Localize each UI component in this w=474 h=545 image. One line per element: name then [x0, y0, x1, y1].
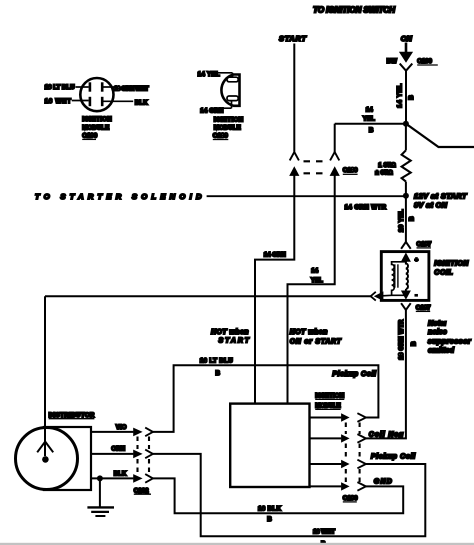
connector C189 pin B female chevron — [330, 152, 339, 160]
module pin pickup coil stub — [310, 417, 342, 419]
scan artifact bottom band — [0, 543, 474, 545]
wire 14 YEL branch to C189 — [335, 124, 406, 152]
C189 face pin top — [217, 73, 239, 82]
label IGNITION MODULE C189 — [213, 116, 244, 139]
svg-text:1 35Ω: 1 35Ω — [378, 162, 395, 169]
svg-text:16 LT BLU: 16 LT BLU — [200, 358, 234, 365]
svg-text:14: 14 — [366, 107, 373, 114]
connector C190 face view circle — [80, 78, 113, 111]
module pin gnd stub — [310, 485, 342, 487]
svg-text:suppressor: suppressor — [428, 337, 472, 346]
connector C190 pin 4 female chevron — [357, 482, 366, 491]
wire 18 GRN WTR coil negative — [366, 313, 406, 438]
connector C190 dashed body line 1 — [345, 423, 347, 483]
label IGNITION COIL — [434, 261, 469, 277]
connector C100 label — [417, 58, 438, 65]
svg-text:14 GRN WTR: 14 GRN WTR — [345, 204, 387, 211]
connector C202 dashed body line 1 — [136, 437, 138, 474]
label 14 YEL — [311, 268, 323, 284]
coil secondary tower female chevron — [371, 292, 376, 301]
connector C100 female chevron — [400, 64, 413, 76]
label 16 LT BLU B — [200, 358, 234, 378]
svg-text:noise: noise — [428, 327, 447, 336]
svg-text:IGNITION: IGNITION — [434, 261, 469, 268]
ignition module box — [230, 404, 309, 487]
label B rotated — [410, 341, 417, 346]
svg-text:VIO: VIO — [116, 424, 127, 431]
distributor pickup VIO lead — [91, 431, 133, 433]
label TO STARTER SOLENOID — [35, 192, 202, 201]
svg-text:C189: C189 — [343, 167, 358, 174]
wire 14 GRN from C189 to ignition module — [255, 174, 294, 404]
wire into distributor rotor — [44, 296, 46, 456]
label VIO — [116, 424, 127, 431]
label HOT when START — [211, 329, 250, 345]
distributor rotor node — [42, 456, 49, 463]
svg-text:14 GRN: 14 GRN — [200, 108, 224, 115]
svg-text:14 YEL: 14 YEL — [396, 84, 403, 108]
svg-text:IGNITION: IGNITION — [214, 116, 244, 123]
resistor 1.35 ohm ballast — [402, 124, 411, 196]
connector C189 face view shape — [221, 75, 239, 106]
wire 14 YEL from C189 to ignition module — [288, 174, 335, 404]
connector C197 bottom male arrow inside coil — [401, 291, 411, 300]
svg-text:18 GRN WTR: 18 GRN WTR — [398, 319, 405, 360]
svg-text:20 YEL: 20 YEL — [398, 209, 405, 232]
svg-text:MODULE: MODULE — [214, 125, 241, 132]
svg-text:omitted: omitted — [428, 346, 455, 355]
C190 face pin bottom-right — [102, 97, 133, 106]
connector C202 pin 3 male arrow — [133, 474, 142, 483]
connector C189 pin A female chevron — [290, 152, 299, 160]
junction node 14 YEL — [403, 121, 409, 127]
connector C202 pin 1 male arrow — [133, 428, 142, 437]
label 14 GRN — [264, 252, 287, 259]
svg-text:+: + — [415, 257, 419, 263]
svg-text:GND: GND — [374, 479, 392, 486]
svg-text:BLK: BLK — [114, 470, 127, 477]
node ON — [401, 34, 413, 43]
ignition coil box — [381, 252, 429, 301]
connector C190 label — [343, 495, 358, 502]
C189 face pin bottom — [221, 96, 238, 108]
label 16 WHT pin — [45, 98, 72, 105]
label 12V at START 9V at ON — [414, 191, 468, 209]
connector C189 label — [343, 167, 358, 174]
label 14 YEL pin — [198, 71, 220, 78]
label HOT when ON or START — [290, 329, 342, 346]
label 16 BLK B — [258, 505, 282, 523]
distributor housing — [16, 427, 92, 490]
label 16 WHT B — [313, 529, 335, 545]
svg-text:C189: C189 — [213, 133, 229, 140]
node START — [279, 34, 307, 43]
svg-text:16 WHT: 16 WHT — [45, 98, 72, 105]
svg-text:C197: C197 — [416, 304, 431, 311]
svg-text:YEL: YEL — [311, 277, 323, 284]
C190 face pin bottom-left — [72, 97, 90, 106]
svg-text:B: B — [408, 216, 415, 221]
svg-text:B: B — [408, 95, 415, 100]
label 20 YEL rotated — [398, 209, 405, 232]
label 14 YEL rotated — [396, 84, 403, 108]
svg-text:START: START — [279, 34, 307, 43]
label GND — [374, 479, 392, 486]
module pin coil neg stub — [310, 437, 342, 439]
label TO IGNITION SWITCH — [313, 6, 396, 15]
svg-text:YEL: YEL — [363, 116, 375, 123]
label 18 GRN WHT pin — [114, 86, 149, 93]
label 16 LT BLU pin — [45, 84, 76, 91]
label B rotated — [408, 216, 415, 221]
wire to starter solenoid — [207, 195, 406, 197]
connector C190 pin 2 female chevron — [357, 434, 366, 443]
distributor BLK ground lead — [91, 477, 133, 479]
label 14 GRN WTR — [345, 204, 387, 211]
svg-text:16 BLK: 16 BLK — [258, 505, 282, 512]
connector C202 label — [134, 487, 151, 494]
connector C190 pin 3 female chevron — [357, 460, 366, 469]
svg-text:Pickup Coil: Pickup Coil — [371, 454, 416, 461]
svg-text:BW: BW — [387, 58, 397, 65]
svg-text:ORN: ORN — [111, 446, 125, 453]
connector C202 pin 2 male arrow — [133, 450, 142, 459]
svg-text:C197: C197 — [417, 241, 432, 248]
connector C190 pin 1 male arrow — [341, 413, 350, 421]
connector C190 pin 1 female chevron — [357, 413, 366, 422]
svg-text:Pickup Coil: Pickup Coil — [332, 371, 377, 378]
svg-text:COIL: COIL — [434, 269, 453, 276]
wire 16 WHT pickup return — [153, 454, 425, 536]
svg-text:MODULE: MODULE — [82, 125, 109, 132]
svg-text:DISTRIBUTOR: DISTRIBUTOR — [49, 412, 95, 419]
svg-text:Coil Neg: Coil Neg — [369, 432, 404, 439]
label IGNITION MODULE C190 — [82, 116, 112, 140]
svg-text:B: B — [369, 127, 374, 134]
label 14 YEL B — [363, 107, 375, 134]
connector C189 pin A male arrow — [289, 166, 299, 176]
C190 face pin top-left — [76, 82, 90, 91]
wire 14 YEL ON feed — [405, 74, 407, 124]
connector C189 dashed body link row 1 — [304, 160, 329, 162]
connector C202 pin 3 female chevron — [145, 474, 153, 483]
label B rotated — [408, 95, 415, 100]
coil polarity labels — [415, 257, 419, 298]
svg-text:ON: ON — [401, 34, 413, 43]
label BW — [387, 58, 397, 65]
junction node 12V — [403, 193, 409, 199]
distributor pickup ORN lead — [91, 453, 133, 455]
label 18 GRN WTR rotated — [398, 319, 405, 360]
wire 20 YEL to ignition coil — [405, 196, 407, 242]
wire branch to right edge — [406, 124, 474, 147]
svg-text:14 YEL: 14 YEL — [198, 71, 220, 78]
connector C190 pin 3 male arrow — [341, 460, 350, 468]
svg-text:18 GRN WHT: 18 GRN WHT — [114, 86, 149, 93]
connector C197 top female chevron — [401, 242, 411, 249]
svg-text:B: B — [267, 516, 272, 523]
ignition coil core — [395, 264, 398, 287]
label DISTRIBUTOR — [49, 412, 95, 419]
svg-text:16 WHT: 16 WHT — [313, 529, 335, 536]
svg-text:B: B — [216, 370, 221, 377]
svg-text:IGNITION: IGNITION — [315, 393, 344, 400]
ground — [87, 478, 114, 516]
svg-text:C202: C202 — [134, 487, 149, 494]
svg-text:C190: C190 — [343, 495, 358, 502]
svg-text:C190: C190 — [82, 133, 98, 140]
distributor rotor arrow — [37, 442, 53, 453]
svg-text:TO IGNITION SWITCH: TO IGNITION SWITCH — [313, 6, 396, 15]
svg-text:HOT when: HOT when — [290, 329, 328, 336]
connector C202 pin 2 female chevron — [145, 450, 153, 459]
svg-text:HOT when: HOT when — [211, 329, 249, 336]
svg-text:C100: C100 — [417, 58, 432, 65]
connector C100 male arrow — [399, 43, 413, 63]
wire coil secondary to distributor — [45, 295, 371, 297]
C190 face pin top-right — [102, 82, 113, 91]
svg-text:14: 14 — [311, 268, 318, 275]
note noise suppressor omitted — [428, 319, 472, 355]
connector C189 pin B male arrow — [330, 166, 340, 176]
label Pickup Coil top — [332, 371, 377, 378]
module pin pickup coil 2 stub — [310, 463, 342, 465]
svg-text:14 GRN: 14 GRN — [264, 252, 287, 259]
connector C197 top male arrow inside coil — [401, 252, 411, 264]
connector C189 dashed body link row 2 — [304, 172, 329, 174]
connector C190 pin 4 male arrow — [341, 482, 350, 490]
coil secondary tower male arrow — [374, 291, 384, 301]
connector C197 bottom label — [416, 304, 431, 311]
connector C190 pin 2 male arrow — [341, 434, 350, 442]
svg-text:IGNITION: IGNITION — [82, 116, 112, 123]
junction node BLK ground — [97, 475, 103, 481]
svg-text:12V at START: 12V at START — [414, 191, 468, 200]
svg-text:16 LT BLU: 16 LT BLU — [45, 84, 76, 91]
ignition coil primary winding — [383, 262, 406, 296]
ignition coil secondary winding — [406, 264, 408, 293]
wire 16 LT BLU pickup loop — [153, 365, 379, 432]
label 14 GRN pin — [200, 108, 224, 115]
label BLK pin — [135, 99, 148, 106]
svg-text:MODULE: MODULE — [315, 403, 341, 410]
label ORN — [111, 446, 125, 453]
svg-text:-: - — [415, 292, 417, 298]
svg-text:B: B — [410, 341, 417, 346]
connector C202 dashed body line 2 — [148, 437, 150, 474]
label IGNITION MODULE — [315, 393, 344, 410]
connector C197 bottom female chevron — [401, 303, 411, 313]
connector C190 dashed body line 2 — [359, 423, 361, 483]
resistor value label — [375, 162, 395, 177]
connector C202 pin 1 female chevron — [145, 428, 153, 437]
label Pickup Coil — [371, 454, 416, 461]
connector C197 top label — [417, 241, 432, 248]
svg-text:± 05Ω: ± 05Ω — [375, 170, 392, 177]
svg-text:ON or START: ON or START — [290, 339, 342, 346]
label BLK — [114, 470, 127, 477]
wire 16 BLK ground — [153, 478, 403, 513]
svg-text:9V at ON: 9V at ON — [414, 201, 448, 210]
label Coil Neg — [369, 432, 404, 439]
svg-text:BLK: BLK — [135, 99, 148, 106]
wire START vertical — [293, 44, 295, 152]
